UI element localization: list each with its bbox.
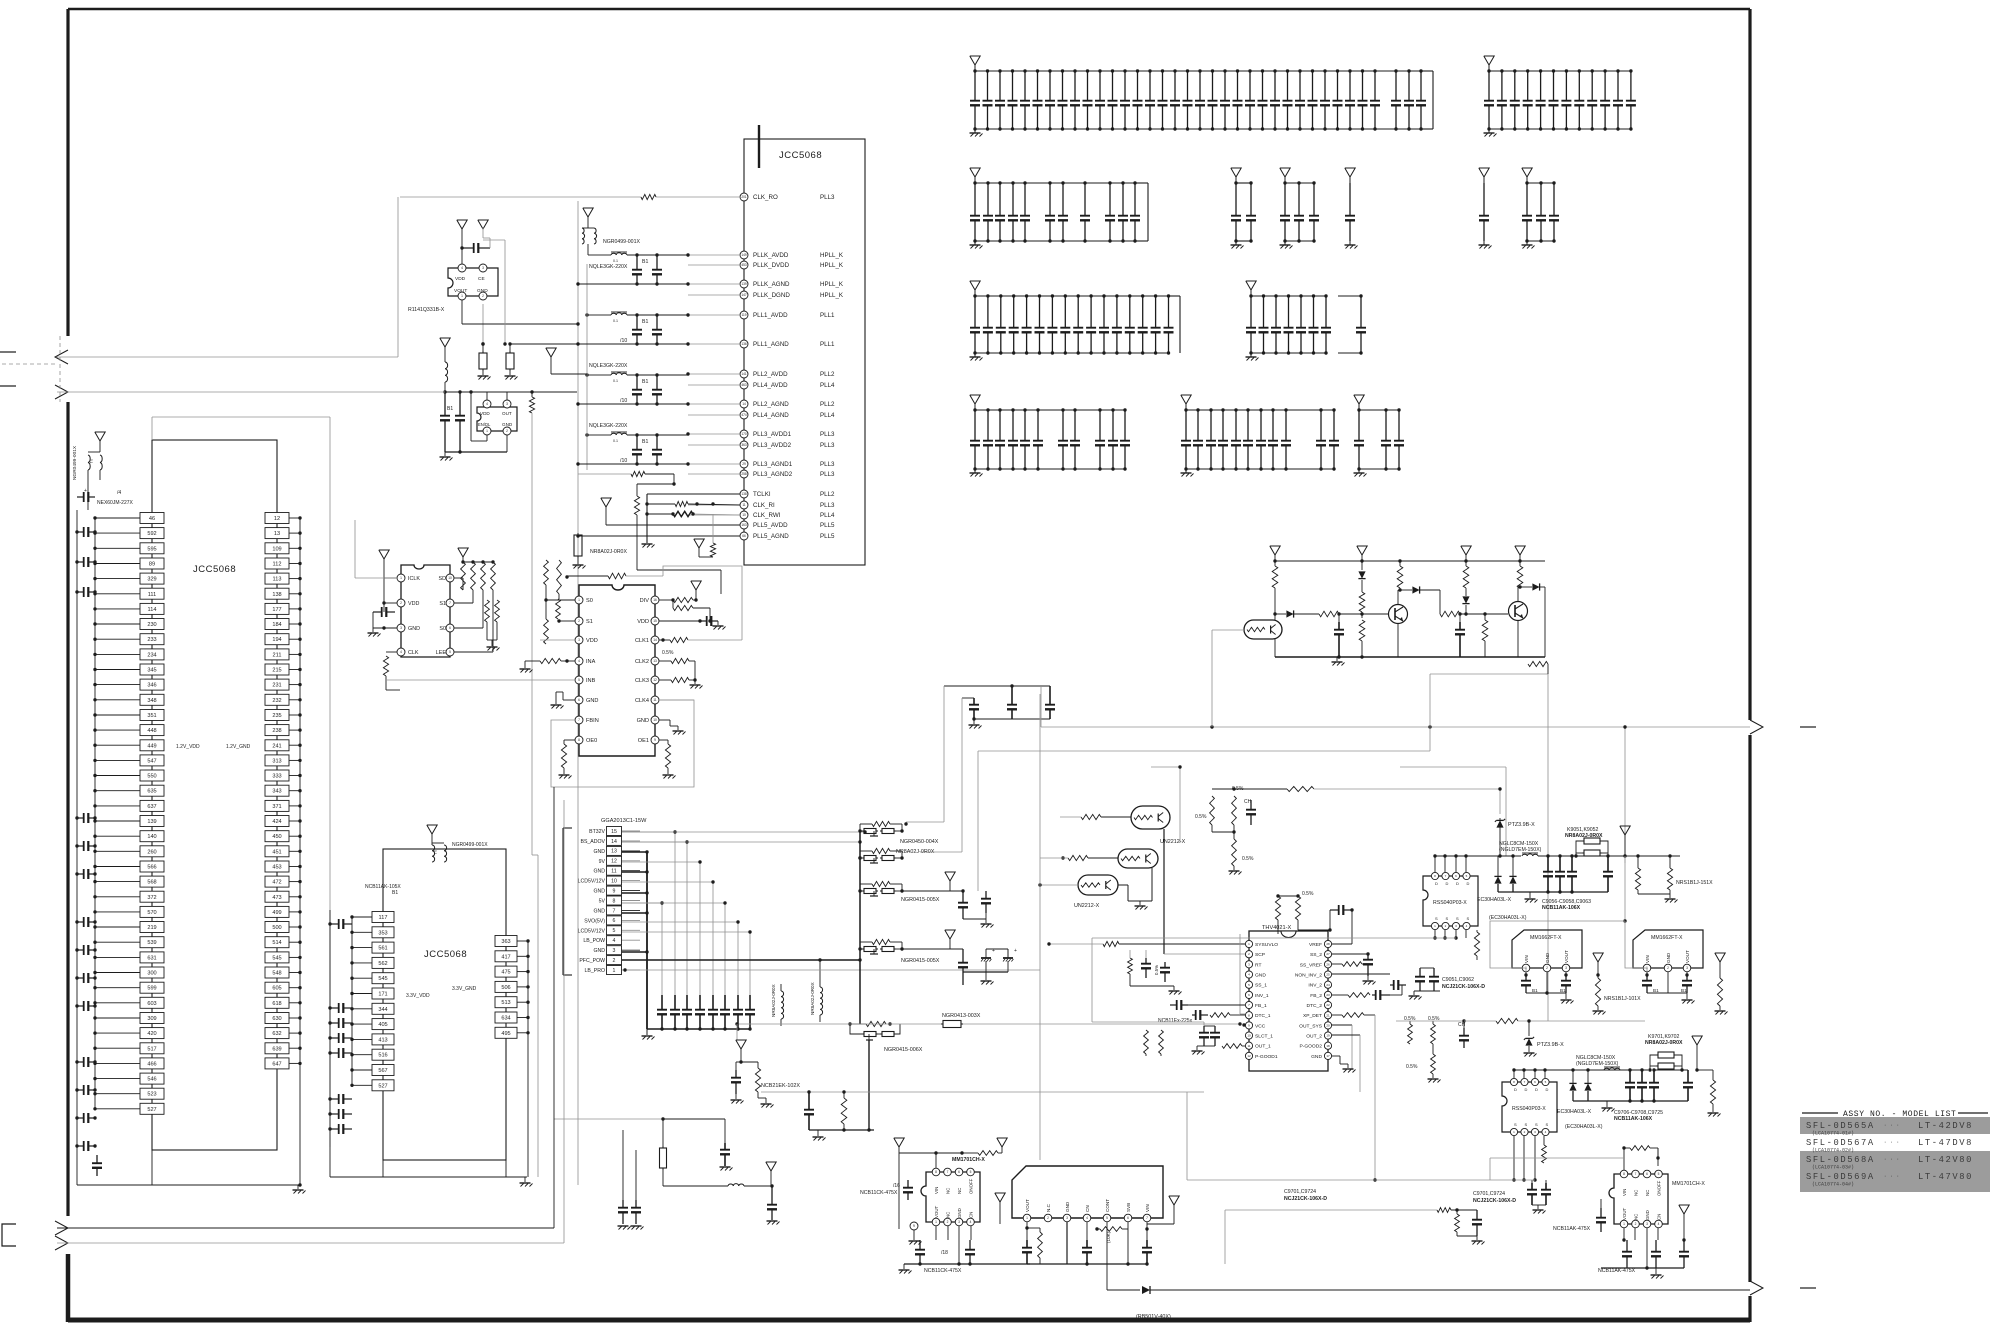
capacitor+resistor FB_1 bbox=[1192, 1014, 1196, 1016]
GGA gnd pin wire bbox=[622, 951, 647, 953]
block1 filter coil L2 bbox=[100, 455, 102, 470]
block2 pin 353 bbox=[372, 927, 394, 938]
MM1701R onoff wire bbox=[1657, 1148, 1659, 1166]
svg-text:NC: NC bbox=[957, 1188, 962, 1194]
X1 vdd rail y392 bbox=[445, 391, 577, 393]
U4 pin 10 SLCT_1 bbox=[1245, 1032, 1252, 1039]
block1 pin 13 bbox=[265, 528, 289, 539]
U3 pin 7 FBIN bbox=[575, 716, 583, 724]
capacitor bank118 bbox=[1187, 71, 1189, 101]
svg-text:NGR0499-001X: NGR0499-001X bbox=[452, 842, 488, 848]
block1 pin 647 bbox=[265, 1058, 289, 1069]
RSS040P03-X pin 3 bottom bbox=[1452, 922, 1459, 929]
svg-text:VIN: VIN bbox=[1645, 955, 1650, 963]
top rail bank11 bbox=[975, 409, 1125, 411]
block1 pin 138 bbox=[265, 588, 289, 599]
svg-text:451: 451 bbox=[272, 849, 281, 855]
block1 pin 114 bbox=[140, 603, 164, 614]
svg-text:17: 17 bbox=[1326, 1054, 1330, 1058]
capacitor RT bbox=[1145, 958, 1147, 964]
block1 pin 300 bbox=[140, 967, 164, 978]
capacitor bank911 bbox=[1103, 296, 1105, 328]
svg-text:3: 3 bbox=[1066, 1216, 1068, 1220]
svg-text:171: 171 bbox=[378, 992, 387, 998]
resistor RA1 bbox=[1272, 566, 1278, 588]
capacitor pair NQLE3GK-220X bbox=[636, 375, 638, 390]
svg-text:···: ··· bbox=[1884, 1122, 1903, 1129]
NCJ power left bbox=[995, 1193, 1005, 1202]
svg-text:B1: B1 bbox=[642, 259, 648, 265]
svg-text:111: 111 bbox=[148, 592, 157, 598]
U3 OE1 resistor bbox=[659, 739, 668, 741]
bottom rail bank11 bbox=[975, 468, 1125, 470]
svg-text:GND: GND bbox=[593, 869, 605, 875]
GGA pin 5 LCD5V/12V bbox=[607, 926, 622, 935]
RSS040P03-X pin 6 top bbox=[1452, 872, 1459, 879]
zener PTZ D2 bbox=[1361, 561, 1363, 570]
OUT_2 wire bbox=[1332, 1034, 1360, 1036]
capacitor bank38 bbox=[1084, 183, 1086, 216]
svg-text:20: 20 bbox=[1326, 1023, 1330, 1027]
diode D5 bbox=[1520, 586, 1532, 588]
capacitor bank135 bbox=[1408, 71, 1410, 101]
RSS040P03-X pin 2 bottom bbox=[1521, 1128, 1528, 1135]
svg-text:546: 546 bbox=[147, 1077, 156, 1083]
MM1701R input cap bbox=[1600, 1208, 1602, 1218]
svg-text:527: 527 bbox=[147, 1107, 156, 1113]
block1 electrolytic capacitor bottom bbox=[96, 1155, 98, 1163]
top rail bank2 bbox=[1489, 70, 1631, 72]
NCJ gnd pin3 wire bbox=[1066, 1222, 1068, 1264]
capacitor bank122 bbox=[1237, 71, 1239, 101]
block1 pin 109 bbox=[265, 543, 289, 554]
svg-text:S: S bbox=[1467, 916, 1470, 921]
resistor RU22 bbox=[471, 562, 476, 590]
svg-text:S: S bbox=[1535, 1122, 1538, 1127]
NCJ bottom rail bbox=[1027, 1263, 1147, 1265]
block1 outer grey loop bbox=[152, 416, 330, 418]
svg-text:10: 10 bbox=[742, 513, 746, 517]
svg-text:647: 647 bbox=[272, 1061, 281, 1067]
U4 pin 21 XP_DET bbox=[1324, 1012, 1331, 1019]
svg-text:1.2V_GND: 1.2V_GND bbox=[226, 744, 251, 750]
capacitor bank6 bbox=[1349, 183, 1351, 216]
wire CLK_RO vertical bbox=[397, 197, 399, 357]
svg-text:SFL-0D568A: SFL-0D568A bbox=[1806, 1155, 1875, 1165]
svg-text:140: 140 bbox=[147, 834, 156, 840]
svg-text:PLL4_AGND: PLL4_AGND bbox=[753, 412, 789, 419]
svg-text:+: + bbox=[1014, 948, 1017, 954]
svg-text:348: 348 bbox=[147, 698, 156, 704]
svg-text:1: 1 bbox=[461, 294, 463, 298]
IC NCJ21CK-106X-D outline bbox=[1012, 1166, 1163, 1218]
svg-text:329: 329 bbox=[147, 577, 156, 583]
capacitor FB_1 h bbox=[1170, 1004, 1177, 1006]
svg-text:632: 632 bbox=[272, 1031, 281, 1037]
block2 pin 561 bbox=[372, 942, 394, 953]
svg-text:(LCA10774-02#): (LCA10774-02#) bbox=[1812, 1148, 1854, 1154]
svg-text:5: 5 bbox=[578, 678, 580, 682]
svg-text:547: 547 bbox=[147, 758, 156, 764]
CH capacitor bbox=[1250, 800, 1252, 810]
block1 pin 233 bbox=[140, 634, 164, 645]
analog out vertical bbox=[1547, 664, 1549, 674]
digital transistor UN2212 Q6 bbox=[1078, 875, 1118, 895]
svg-text:453: 453 bbox=[741, 263, 747, 267]
05 lower resistor bbox=[1431, 1054, 1436, 1074]
block1 pin 632 bbox=[265, 1028, 289, 1039]
svg-text:B1: B1 bbox=[642, 439, 648, 445]
capacitor bank128 bbox=[1272, 410, 1274, 441]
ground mid 1 bbox=[1529, 892, 1531, 898]
ground bank11 bbox=[974, 469, 976, 473]
power flag PLL2 filter bbox=[546, 348, 556, 357]
svg-text:VOUT: VOUT bbox=[454, 288, 467, 294]
svg-text:NC: NC bbox=[1634, 1190, 1639, 1196]
capacitor bank101 bbox=[1250, 296, 1252, 328]
capacitor CG3 bbox=[686, 995, 688, 1010]
svg-text:GND: GND bbox=[593, 889, 605, 895]
svg-text:109: 109 bbox=[272, 546, 281, 552]
svg-text:NC: NC bbox=[1634, 1214, 1639, 1220]
svg-text:463: 463 bbox=[741, 383, 747, 387]
svg-text:P-GOOD2: P-GOOD2 bbox=[1299, 1044, 1322, 1050]
block2 pin 513 bbox=[495, 997, 517, 1008]
resistor SS_VREF bbox=[1332, 963, 1342, 965]
block1 pin 639 bbox=[265, 1043, 289, 1054]
resistor before Q4 bbox=[1081, 814, 1101, 819]
svg-text:HPLL_K: HPLL_K bbox=[820, 292, 844, 299]
U1 pin 119 PLL1_AVDD bbox=[740, 311, 748, 319]
border frame right segments bbox=[1748, 9, 1751, 720]
svg-text:201: 201 bbox=[741, 195, 747, 199]
svg-text:INV_2: INV_2 bbox=[1308, 983, 1322, 989]
U4 pin 7 FB_1 bbox=[1245, 1001, 1252, 1008]
svg-text:566: 566 bbox=[147, 865, 156, 871]
svg-text:NC: NC bbox=[1645, 1190, 1650, 1196]
power flag for bank5 bbox=[1280, 168, 1290, 177]
svg-text:VIN: VIN bbox=[1622, 1189, 1627, 1196]
MM1662 2 caps bbox=[1646, 972, 1648, 975]
U4 top cap bbox=[1298, 929, 1330, 931]
svg-text:139: 139 bbox=[147, 819, 156, 825]
svg-text:VDD: VDD bbox=[480, 411, 490, 416]
block2 decoupling capacitor 3 bbox=[330, 1022, 339, 1024]
svg-text:5V: 5V bbox=[599, 899, 606, 905]
ground bank9 bbox=[974, 353, 976, 357]
off-page arrow left y392 bbox=[55, 385, 68, 399]
electrolytic capacitor pair bbox=[985, 949, 987, 958]
top rail bank9 bbox=[975, 295, 1169, 297]
capacitor bank121 bbox=[1224, 71, 1226, 101]
svg-text:5: 5 bbox=[449, 650, 451, 654]
IC RSS040P03-X outline bbox=[1423, 876, 1478, 926]
U2 pin 7 S1 bbox=[446, 599, 454, 607]
U4 pin 22 DTC_2 bbox=[1324, 1001, 1331, 1008]
analog bottom rail bbox=[1275, 656, 1545, 658]
U4 pin 1 SYSUVLO bbox=[1245, 940, 1252, 947]
svg-text:ICLK: ICLK bbox=[408, 576, 420, 582]
U3 CLK1 resistor bbox=[659, 639, 670, 641]
svg-text:0.5%: 0.5% bbox=[1154, 965, 1159, 975]
svg-text:639: 639 bbox=[272, 1046, 281, 1052]
zener D4 bbox=[1462, 596, 1469, 603]
digital transistor Q1 stadium bbox=[1244, 620, 1282, 639]
svg-text:ONOFF: ONOFF bbox=[1657, 1180, 1662, 1196]
RSS040P03-X pin 7 top bbox=[1521, 1078, 1528, 1085]
svg-text:562: 562 bbox=[378, 961, 387, 967]
svg-text:S1: S1 bbox=[586, 619, 593, 625]
block2 decoupling capacitor 7 bbox=[330, 1113, 339, 1115]
capacitor bank91 bbox=[974, 296, 976, 328]
svg-text:517: 517 bbox=[147, 1046, 156, 1052]
block2 filter coil L1 bbox=[432, 845, 435, 862]
svg-text:15: 15 bbox=[611, 829, 617, 835]
svg-text:548: 548 bbox=[272, 971, 281, 977]
resistor NRS1B1J-151X a bbox=[1635, 868, 1640, 890]
block2 ground bbox=[524, 1177, 526, 1182]
svg-text:12: 12 bbox=[274, 516, 280, 522]
NCJ power right bbox=[1169, 1196, 1179, 1205]
capacitor CG5 bbox=[712, 995, 714, 1010]
top rail bank12 bbox=[1186, 409, 1334, 411]
capacitor bank23 bbox=[1514, 71, 1516, 101]
svg-text:545: 545 bbox=[272, 955, 281, 961]
resistor RA4 bbox=[1359, 620, 1365, 641]
right margin dash y727 bbox=[1800, 726, 1816, 728]
capacitor bank95 bbox=[1026, 296, 1028, 328]
block1 decoupling capacitor 2 bbox=[77, 561, 84, 563]
svg-text:EN/DL: EN/DL bbox=[478, 422, 491, 427]
power flags R1141 bbox=[457, 220, 467, 229]
RSS040P03-X pin 3 bottom bbox=[1531, 1128, 1538, 1135]
block2 pin 405 bbox=[372, 1019, 394, 1030]
svg-text:119: 119 bbox=[741, 313, 746, 317]
svg-text:7: 7 bbox=[578, 718, 580, 722]
capacitor bank123 bbox=[1210, 410, 1212, 441]
svg-text:PLL5: PLL5 bbox=[820, 533, 835, 540]
resistor pair OUT_1 bbox=[1144, 1030, 1149, 1054]
svg-text:INA: INA bbox=[586, 659, 596, 665]
R1141 pin 4 bbox=[458, 264, 466, 272]
capacitor bank910 bbox=[1090, 296, 1092, 328]
svg-text:567: 567 bbox=[378, 1068, 387, 1074]
block2 pin 344 bbox=[372, 1003, 394, 1014]
capacitor pair bbox=[636, 315, 638, 330]
ground bank8 bbox=[1526, 241, 1528, 245]
block1 pin 348 bbox=[140, 694, 164, 705]
capacitor CA1 bbox=[1338, 614, 1340, 622]
svg-text:PLL5_AGND: PLL5_AGND bbox=[753, 533, 789, 540]
capacitor bank33 bbox=[999, 183, 1001, 216]
svg-text:SVB: SVB bbox=[1126, 1203, 1131, 1212]
MM1701L gnd bbox=[903, 1264, 905, 1269]
svg-text:9: 9 bbox=[913, 1224, 915, 1228]
ground 2 bbox=[1606, 1101, 1608, 1107]
ground bank13 bbox=[1358, 469, 1360, 473]
svg-text:INV_1: INV_1 bbox=[1255, 993, 1269, 999]
caps NCJ21CK area bbox=[1419, 968, 1421, 977]
X1 pin 2 bbox=[503, 427, 511, 435]
block1 pin 453 bbox=[265, 861, 289, 872]
resistor PLL3_AGND2 line bbox=[631, 471, 645, 476]
svg-text:561: 561 bbox=[378, 946, 387, 952]
svg-text:GND: GND bbox=[637, 718, 649, 724]
cap+res FB_2 bbox=[1332, 994, 1348, 996]
resistor network NGR0450-004X bbox=[872, 821, 890, 826]
U3 FBIN loop bbox=[551, 700, 694, 787]
transistor Q3 bbox=[1509, 602, 1528, 621]
svg-text:12: 12 bbox=[611, 859, 617, 865]
zener PTZ3.9B-X 2 bbox=[1528, 1021, 1530, 1036]
svg-text:VOUT: VOUT bbox=[1025, 1199, 1030, 1212]
capacitor bank134 bbox=[1395, 71, 1397, 101]
svg-text:VOUT: VOUT bbox=[1564, 950, 1569, 963]
capacitor bank15 bbox=[1024, 71, 1026, 101]
svg-text:66: 66 bbox=[742, 534, 746, 538]
svg-text:NQLE3GK-220X: NQLE3GK-220X bbox=[589, 264, 628, 270]
block1 decoupling capacitor 6 bbox=[77, 873, 84, 875]
U2 pin 5 LEE bbox=[446, 648, 454, 656]
svg-text:241: 241 bbox=[272, 743, 281, 749]
block1 pin 194 bbox=[265, 634, 289, 645]
power flag bank6 bbox=[1345, 168, 1355, 177]
X1 pin 1 bbox=[483, 427, 491, 435]
resistor CLK_RWI dark bbox=[647, 513, 673, 515]
svg-text:PLL3_AGND1: PLL3_AGND1 bbox=[753, 461, 793, 468]
MM1662 1 ground bbox=[1565, 993, 1567, 999]
RSS2 gate resistor bbox=[1542, 1145, 1547, 1163]
resistor RA3 bbox=[1359, 592, 1365, 612]
GGA gnd pin wire bbox=[622, 892, 647, 894]
transistor Q2 bbox=[1389, 605, 1408, 624]
U3 DIV power bbox=[691, 581, 701, 590]
IC MM1701CH-X outline bbox=[921, 1172, 980, 1222]
svg-text:(LCA10774-03#): (LCA10774-03#) bbox=[1812, 1165, 1854, 1171]
svg-text:NGR0413-003X: NGR0413-003X bbox=[942, 1013, 981, 1019]
capacitor bank119 bbox=[1199, 71, 1201, 101]
block2 pin 527 bbox=[372, 1080, 394, 1091]
capacitor X1 B1 pair bbox=[444, 392, 446, 416]
capacitor bank10 extra bbox=[1360, 296, 1362, 328]
svg-text:/4: /4 bbox=[117, 490, 121, 496]
svg-text:13: 13 bbox=[611, 849, 617, 855]
U4 top resistor pair bbox=[1278, 895, 1298, 897]
U4 pin 6 INV_1 bbox=[1245, 991, 1252, 998]
svg-text:184: 184 bbox=[272, 622, 281, 628]
svg-text:CONT: CONT bbox=[1105, 1199, 1110, 1212]
svg-text:3: 3 bbox=[506, 402, 508, 406]
capacitor bank53 bbox=[1313, 183, 1315, 216]
IC U2 ICLK outline bbox=[401, 565, 450, 657]
svg-text:NCB11AK-475X: NCB11AK-475X bbox=[1553, 1226, 1591, 1232]
svg-text:PLL3: PLL3 bbox=[820, 442, 835, 449]
svg-text:NGR0450-004X: NGR0450-004X bbox=[900, 839, 939, 845]
svg-text:NR8A02J-0R0X: NR8A02J-0R0X bbox=[1645, 1040, 1683, 1046]
capacitor bank111 bbox=[974, 410, 976, 441]
svg-text:PTZ3.9B-X: PTZ3.9B-X bbox=[1508, 822, 1535, 828]
GGA PFC_POW heavy net bbox=[622, 959, 860, 961]
svg-text:RSS040P03-X: RSS040P03-X bbox=[1512, 1106, 1546, 1112]
svg-text:550: 550 bbox=[147, 774, 156, 780]
svg-text:JCC5068: JCC5068 bbox=[424, 949, 467, 960]
RSS040P03-X pin 4 bottom bbox=[1463, 922, 1470, 929]
RSS040P03-X pin 8 top bbox=[1431, 872, 1438, 879]
capacitor bank112 bbox=[987, 410, 989, 441]
resistor PLL5 vertical bbox=[710, 543, 715, 557]
svg-text:/10: /10 bbox=[620, 458, 627, 464]
bottom rail bank1 bbox=[975, 128, 1421, 130]
block1 pin 346 bbox=[140, 679, 164, 690]
block2 left rail bbox=[329, 910, 331, 1100]
capacitor bank122 bbox=[1197, 410, 1199, 441]
caps trio bottom rail bbox=[974, 718, 1050, 720]
MM1701L bottom caps bbox=[919, 1240, 921, 1250]
svg-text:506: 506 bbox=[501, 985, 510, 991]
block1 filter coil L1 bbox=[88, 455, 90, 470]
capacitor bank36 bbox=[1049, 183, 1051, 216]
capacitor bank102 bbox=[1263, 296, 1265, 328]
MM1701R top res bbox=[1630, 1146, 1650, 1151]
svg-text:NCB21EK-102X: NCB21EK-102X bbox=[761, 1083, 800, 1089]
block1 pin 343 bbox=[265, 785, 289, 796]
MM1701 pin 1 VOUT bbox=[932, 1218, 940, 1226]
svg-text:PLL2: PLL2 bbox=[820, 491, 835, 498]
power flag analog x1466 bbox=[1461, 546, 1471, 555]
block2 pin 495 bbox=[495, 1027, 517, 1038]
svg-text:VCC: VCC bbox=[1255, 1023, 1266, 1029]
vertical from rail down 1 bbox=[1624, 856, 1626, 921]
power MM1701L left bbox=[894, 1138, 904, 1147]
svg-text:OUT_SYS: OUT_SYS bbox=[1299, 1023, 1323, 1029]
U4 pin 12 P-GOOD1 bbox=[1245, 1052, 1252, 1059]
svg-text:499: 499 bbox=[272, 910, 281, 916]
U2 right pull resistor rail bbox=[458, 548, 468, 557]
off-page arrow right y727 bbox=[1750, 720, 1763, 734]
capacitor below GGA x636 bbox=[635, 1150, 637, 1200]
block1 pin 472 bbox=[265, 876, 289, 887]
svg-text:DIV: DIV bbox=[640, 598, 650, 604]
svg-text:14: 14 bbox=[611, 839, 617, 845]
model list table grey rows bbox=[1800, 1117, 1990, 1134]
block1 pin 215 bbox=[265, 664, 289, 675]
svg-text:R1141Q331B-X: R1141Q331B-X bbox=[408, 307, 445, 313]
block1 pin 499 bbox=[265, 906, 289, 917]
GGA cap row bottom rail bbox=[647, 1028, 750, 1030]
block1 pin 235 bbox=[265, 710, 289, 721]
cap NON_INV bbox=[1332, 973, 1390, 975]
off-page arrow right y1288 bbox=[1750, 1281, 1763, 1295]
svg-text:147: 147 bbox=[741, 293, 747, 297]
svg-text:12: 12 bbox=[1247, 1054, 1251, 1058]
block1 pin 548 bbox=[265, 967, 289, 978]
resistor RA7 bbox=[1463, 566, 1469, 588]
resistor RA10 emitter bbox=[1528, 661, 1548, 666]
long line y1290 with diode bbox=[1107, 1289, 1140, 1291]
MM1701 pin 5 ONOFF bbox=[967, 1168, 975, 1176]
svg-text:3: 3 bbox=[1565, 966, 1567, 970]
svg-text:PLL3: PLL3 bbox=[820, 471, 835, 478]
resistor right 2 bbox=[1710, 1080, 1715, 1104]
svg-text:D: D bbox=[1535, 1087, 1538, 1092]
svg-text:JCC5068: JCC5068 bbox=[193, 564, 236, 575]
svg-text:2: 2 bbox=[947, 1220, 949, 1224]
connector J1 outline box JCC5068 1.2V bbox=[152, 440, 277, 1150]
svg-text:SFL-0D565A: SFL-0D565A bbox=[1806, 1121, 1875, 1131]
GND pin wire bbox=[1332, 1055, 1340, 1057]
svg-text:VIN: VIN bbox=[1145, 1204, 1150, 1212]
block1 decoupling capacitor 10 bbox=[77, 1005, 84, 1007]
